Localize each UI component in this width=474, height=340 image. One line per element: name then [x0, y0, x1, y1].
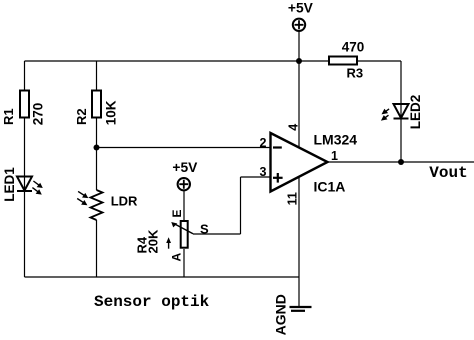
node junction +5V/top rail [296, 58, 302, 64]
LED LED2 arrows [381, 109, 389, 121]
svg-text:2: 2 [260, 136, 267, 150]
resistor R2 box [92, 91, 101, 118]
wire pin3 input [241, 176, 271, 178]
wire opamp output [328, 161, 474, 163]
svg-text:3: 3 [260, 165, 267, 179]
svg-text:LED2: LED2 [408, 95, 423, 130]
svg-text:R1: R1 [1, 108, 16, 125]
svg-text:R2: R2 [74, 108, 89, 125]
LDR photoresistor zigzag [91, 190, 103, 220]
svg-text:AGND: AGND [273, 294, 289, 335]
svg-text:+5V: +5V [172, 160, 198, 175]
wire bottom rail [25, 276, 300, 278]
wire wiper horizontal [193, 233, 241, 235]
svg-text:470: 470 [342, 40, 365, 55]
LED LED1 symbol [17, 177, 32, 192]
resistor R1 box [20, 91, 29, 118]
svg-text:A: A [170, 253, 184, 262]
svg-text:S: S [200, 222, 209, 237]
svg-text:1: 1 [331, 149, 338, 163]
potentiometer R4 up arrow [166, 237, 171, 248]
svg-text:270: 270 [31, 103, 46, 126]
svg-text:20K: 20K [146, 229, 161, 253]
wire R2 to LDR [96, 119, 98, 191]
svg-text:IC1A: IC1A [314, 178, 346, 194]
svg-text:11: 11 [286, 192, 300, 205]
node junction R2/pin2 [94, 145, 100, 151]
power +5V symbol top [293, 19, 305, 31]
wire LED2 column [400, 61, 402, 162]
svg-text:10K: 10K [103, 100, 118, 125]
LDR arrows [77, 191, 88, 205]
wire pot to bottom rail [183, 249, 185, 277]
wire R1 column upper [24, 61, 26, 90]
svg-text:LED1: LED1 [2, 167, 17, 202]
wire wiper vertical [240, 177, 242, 234]
wire +5V power column [298, 31, 300, 307]
potentiometer R4 wiper arrow [171, 222, 193, 234]
svg-text:LM324: LM324 [314, 131, 358, 147]
LED LED1 arrows [32, 181, 42, 195]
svg-text:R3: R3 [346, 65, 363, 80]
svg-text:4: 4 [286, 124, 300, 131]
op-amp plus sign [273, 173, 283, 183]
ground AGND symbol [290, 307, 312, 311]
wire R1 to LED1 to bottom rail [24, 119, 26, 278]
wire R2 column upper [96, 61, 98, 90]
wire R3 right to LED2 corner [358, 60, 401, 62]
wire pin2 input [97, 147, 271, 149]
LED LED2 symbol [394, 104, 409, 119]
svg-text:+5V: +5V [288, 1, 314, 16]
resistor R3 box [329, 57, 357, 65]
wire +5V to pot [183, 191, 185, 221]
wire LDR to bottom rail [96, 220, 98, 277]
node junction output/LED2 [398, 159, 404, 165]
svg-text:Sensor optik: Sensor optik [94, 293, 210, 311]
wire top rail [25, 60, 329, 62]
potentiometer R4 box [181, 221, 188, 248]
op-amp minus sign [273, 146, 282, 148]
svg-text:LDR: LDR [111, 194, 138, 209]
op-amp U1 triangle [271, 133, 328, 192]
svg-text:E: E [170, 209, 184, 217]
power +5V symbol at pot [178, 178, 190, 190]
svg-text:Vout: Vout [429, 164, 467, 182]
